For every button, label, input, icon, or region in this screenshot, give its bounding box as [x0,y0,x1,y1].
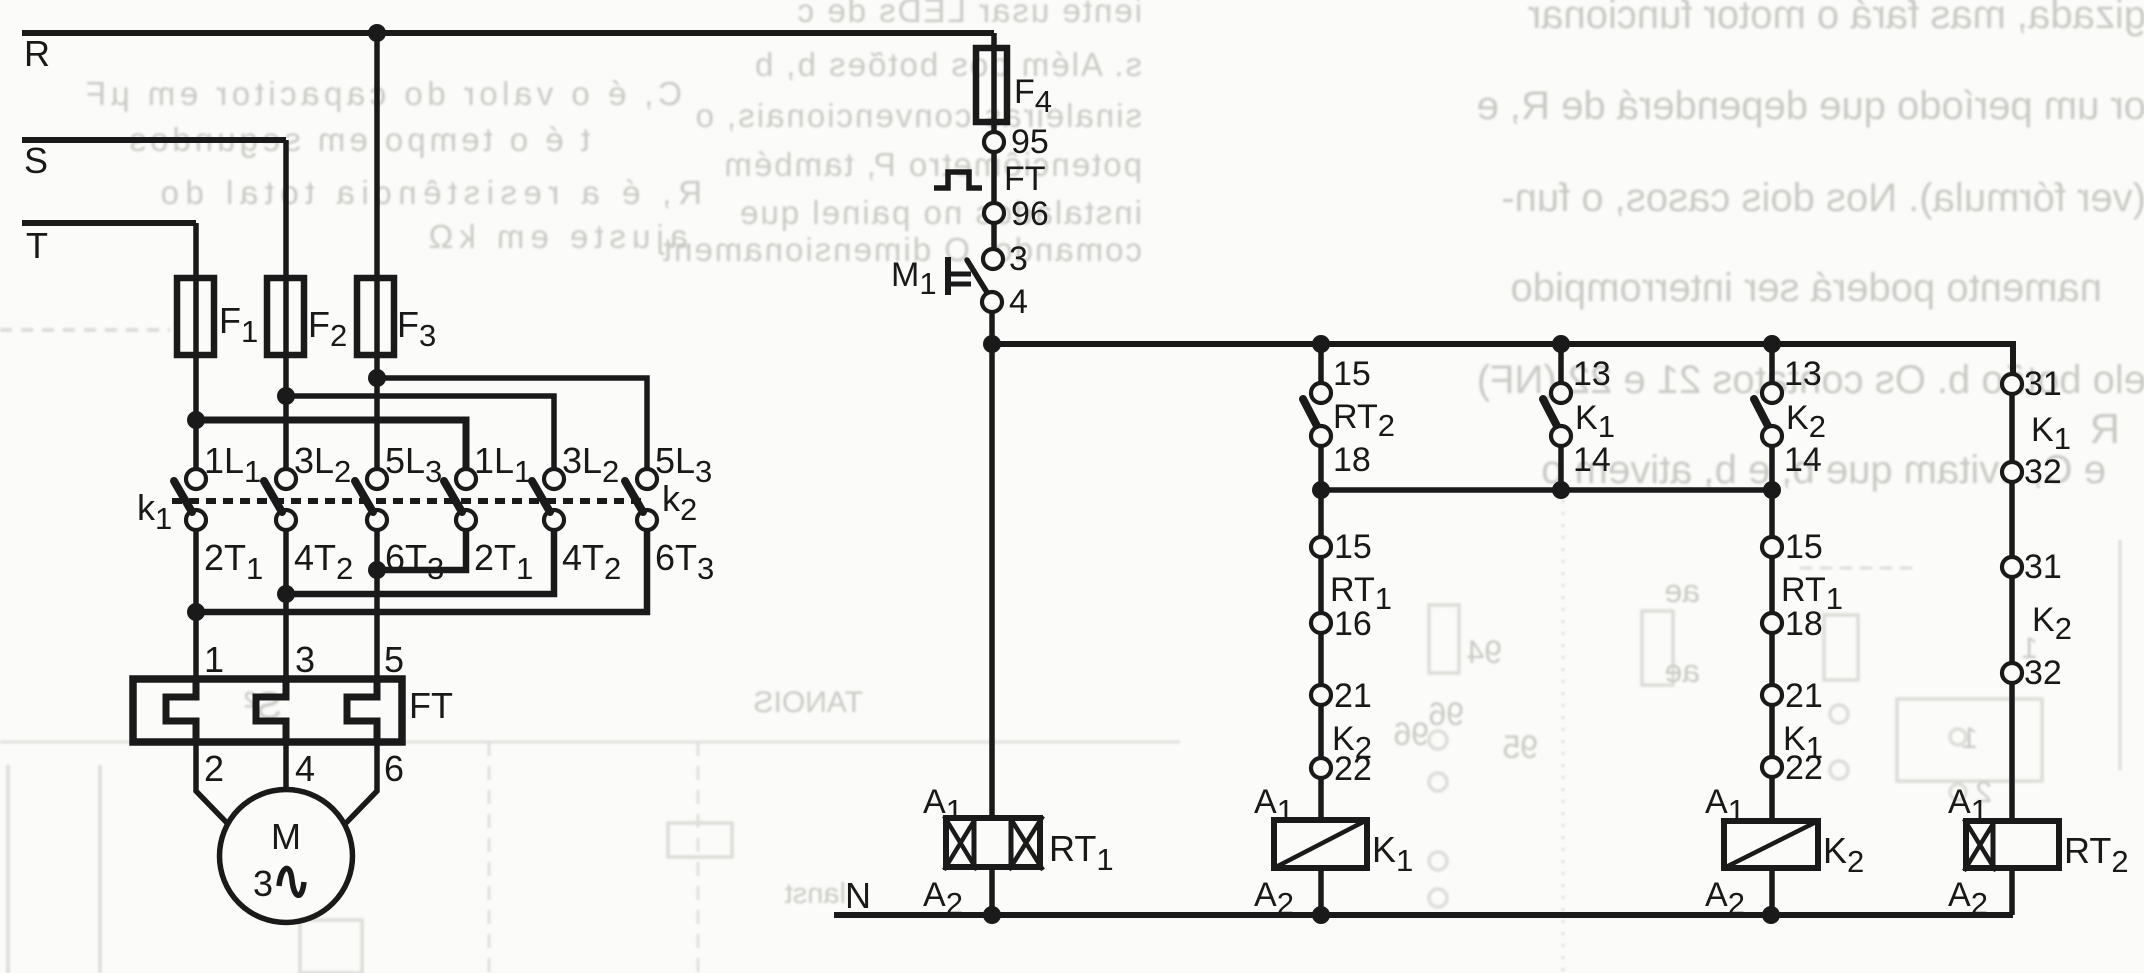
svg-text:K2: K2 [1786,399,1826,444]
thermal overload relay FT (power block) [133,679,453,742]
svg-text:1: 1 [204,639,224,680]
svg-text:R: R [24,33,50,74]
svg-text:RT2: RT2 [2064,830,2129,879]
svg-text:FT: FT [1004,160,1046,198]
svg-text:R, é a resistência total: R, é a resistência total do [154,174,702,211]
svg-text:96: 96 [1011,195,1049,233]
svg-text:2: 2 [204,748,224,789]
pin 2 label [204,748,224,789]
svg-text:K1: K1 [1372,829,1413,878]
svg-text:31: 31 [2024,548,2062,586]
svg-text:16: 16 [1334,605,1372,643]
svg-text:K2: K2 [1823,830,1864,879]
junction bus at RT1 branch [983,335,1001,353]
wire 95 to 96 [991,152,997,204]
wire 22 to K2 coil [1769,776,1775,821]
svg-text:ajuste em kΩ: ajuste em kΩ [423,218,688,255]
wire F1 down to contact k1 pole1 [193,355,199,469]
wire bus to K1 contact [1558,344,1564,384]
svg-text:32: 32 [2024,654,2062,692]
contactor k2 contact pole2 3L2/4T2 [532,440,621,586]
FT NC thermal contact symbol [934,160,1046,198]
wire 16 to 21 [1318,632,1324,686]
svg-text:1L1: 1L1 [474,440,531,489]
wire bus to K2 contact [1769,344,1775,384]
terminal 3 [983,240,1028,278]
wire RT1 coil to N [989,867,995,915]
svg-text:3: 3 [253,863,273,904]
contactor k1 contact pole3 5L3/6T3 [355,440,444,586]
junction bus at K1-contact branch [1552,335,1570,353]
svg-text:18: 18 [1785,605,1823,643]
contact K1 31/32 NC [2002,365,2071,491]
pin 3 label [295,639,315,680]
svg-text:6T3: 6T3 [655,537,714,586]
svg-text:ae: ae [1664,573,1700,609]
wire 4 down to control bus [989,312,995,344]
svg-text:32: 32 [2024,453,2062,491]
svg-text:31: 31 [2024,365,2062,403]
wire F3 branch to k2 pole3 (5L3) [377,378,647,469]
fuse F2 [267,278,347,355]
contactor k1 label [137,487,172,536]
timer contact RT1 15/18 (branch D) [1762,528,1843,643]
wire F1 branch to k2 pole1 (1L1) [196,420,466,469]
timer contact RT1 15/16 [1311,528,1392,643]
junction bus at K2 branch [1763,335,1781,353]
junction N at RT1 coil [983,906,1001,924]
wire k1 pole2 down to FT [283,530,289,679]
svg-text:22: 22 [1785,749,1823,787]
wire F2 branch to k2 pole2 (3L2) [286,396,554,469]
svg-text:N: N [845,875,871,916]
svg-text:instalados no painel que: instalados no painel que [738,194,1142,231]
wire K1 coil to N [1318,868,1324,915]
timer relay coil RT2 [1948,783,2129,921]
pin 1 label [204,639,224,680]
svg-text:95: 95 [1011,123,1049,161]
wire 32 to RT2 coil [2009,682,2015,821]
contactor k1 contact pole2 3L2/4T2 [264,440,353,586]
svg-text:15: 15 [1334,528,1372,566]
svg-text:22: 22 [1334,750,1372,788]
contact K2 21/22 NC [1311,677,1372,788]
svg-text:M: M [271,816,301,857]
pin 6 label [384,748,404,789]
link rail wire [1321,487,1772,493]
svg-text:21: 21 [1785,677,1823,715]
terminal 95 [984,123,1049,161]
svg-text:96: 96 [1393,716,1429,752]
terminal 4 [982,283,1028,321]
svg-text:k1: k1 [137,487,172,536]
svg-text:4T2: 4T2 [294,537,353,586]
wire S to fuse F2 [283,140,289,278]
wire 32 to 31 (branch E) [2009,481,2015,558]
svg-text:96: 96 [1428,696,1464,732]
svg-text:or um período que dependerá de: or um período que dependerá de R, e [1477,84,2144,128]
wire k2 2T1 cross-link to T3 column [377,530,466,570]
dashed mechanical link of contactor poles [172,498,643,504]
svg-text:F2: F2 [308,304,347,353]
wire k1 pole1 down to FT [193,530,199,679]
svg-text:TANOIS: TANOIS [754,686,863,719]
wire FT-6 to motor [346,742,377,823]
wire K2 coil to N [1769,868,1775,915]
svg-text:3: 3 [1009,240,1028,278]
fuse F1 [177,278,258,355]
contactor k2 contact pole1 1L1/2T1 [444,440,533,586]
wire F3 down to contact k1 pole3 [374,355,380,469]
contactor k2 label [662,478,697,527]
junction on R feeding F3 [368,24,386,42]
svg-text:S: S [24,140,48,181]
junction F1 branch to k2 [187,411,205,429]
junction cross-link T1 [187,603,205,621]
svg-text:14: 14 [1784,441,1822,479]
wire FT-4 to motor [283,742,289,790]
svg-text:15: 15 [1785,528,1823,566]
wire 18 to 21 (branch D) [1769,632,1775,686]
contact K1 13/14 NO [1543,355,1615,479]
svg-text:14: 14 [1573,441,1611,479]
contact K2 13/14 NO [1754,355,1826,479]
svg-text:94: 94 [1466,634,1502,670]
motor M 3-phase [220,790,353,923]
contact K2 31/32 NC [2002,548,2072,692]
svg-text:K1: K1 [1575,399,1615,444]
junction F2 branch to k2 [277,387,295,405]
wire rail down branch B [1318,490,1324,538]
junction rail right [1763,481,1781,499]
junction rail left [1312,481,1330,499]
wire K2-14 to rail [1769,445,1775,490]
svg-text:F1: F1 [219,300,258,349]
svg-text:95: 95 [1502,729,1538,765]
fuse F4 [976,48,1052,122]
wire bus to RT2 contact [1318,344,1324,384]
wire k2 6T3 cross-link to T1 column [196,530,647,612]
pin 4 label [295,748,315,789]
junction rail middle [1552,481,1570,499]
junction N at K2 coil [1762,906,1780,924]
contactor coil K2 [1705,783,1864,921]
node N (neutral bus) [834,875,2013,916]
svg-text:13: 13 [1573,355,1611,393]
wire k1 pole3 down to FT [374,530,380,679]
wire rail down branch D [1769,490,1775,538]
svg-text:k2: k2 [662,478,697,527]
pushbutton M1 [891,256,988,301]
wire T to fuse F1 [193,223,199,278]
svg-text:1: 1 [1961,722,1978,755]
svg-text:F3: F3 [397,304,436,353]
contactor k1 contact pole1 1L1/2T1 [174,440,263,586]
svg-text:6T3: 6T3 [385,537,444,586]
svg-text:3: 3 [295,639,315,680]
svg-text:lanst: lanst [785,878,846,910]
svg-text:T: T [26,225,48,266]
junction cross-link T2 [277,585,295,603]
node R (phase R supply line) [22,33,994,74]
svg-text:18: 18 [1333,441,1371,479]
terminal 96 [984,195,1049,233]
contactor k2 contact pole3 5L3/6T3 [625,440,714,586]
svg-text:gizada, mas fará o motor funci: gizada, mas fará o motor funcionar [1528,0,2144,37]
svg-text:4: 4 [1009,283,1028,321]
wire F2 down to contact k1 pole2 [283,355,289,469]
control bus wire [992,344,2013,374]
svg-text:RT1: RT1 [1049,828,1114,877]
fuse F3 [357,278,436,355]
svg-text:3L2: 3L2 [294,440,351,489]
node S (phase S supply line) [22,140,286,181]
svg-text:6: 6 [384,748,404,789]
svg-text:C, é o valor do capacitor em µ: C, é o valor do capacitor em µF [81,75,682,112]
wire R to fuse F3 [374,33,380,278]
svg-text:1L1: 1L1 [204,440,261,489]
wire RT1-coil branch [989,344,995,818]
contact K1 21/22 NC [1762,677,1823,787]
svg-text:13: 13 [1784,355,1822,393]
wire R line down to F4 [991,33,997,132]
timer relay coil RT1 [923,783,1114,921]
svg-text:15: 15 [1333,355,1371,393]
svg-text:RT2: RT2 [1333,398,1395,443]
svg-text:(ver fórmula). Nos dois casos,: (ver fórmula). Nos dois casos, o fun- [1501,176,2144,220]
svg-text:3L2: 3L2 [562,440,619,489]
junction N at K1 coil [1312,906,1330,924]
wire K1-14 to rail [1558,445,1564,490]
svg-text:A1: A1 [923,783,963,828]
svg-text:ae: ae [1664,653,1700,689]
svg-text:2T1: 2T1 [474,537,533,586]
timer contact RT2 15/18 [1303,355,1395,479]
svg-text:potenciômetro P, também: potenciômetro P, também [722,146,1142,183]
node T (phase T supply line) [22,223,196,266]
wire k2 4T2 cross-link to T2 column [286,530,554,594]
svg-text:21: 21 [1334,677,1372,715]
contactor coil K1 [1254,783,1413,921]
svg-text:4T2: 4T2 [562,537,621,586]
svg-text:5: 5 [384,639,404,680]
wire 96 to 3 [991,223,997,250]
svg-text:4: 4 [295,748,315,789]
svg-text:s. Além dos botões b, b: s. Além dos botões b, b [753,46,1142,83]
pin 5 label [384,639,404,680]
wire FT-2 to motor [196,742,227,823]
svg-text:namento poderá ser interrompid: namento poderá ser interrompido [1511,266,2102,310]
svg-text:iente usar LEDs de c: iente usar LEDs de c [796,0,1142,29]
wire RT2 coil to N [2009,868,2015,915]
svg-text:2T1: 2T1 [204,537,263,586]
junction F3 branch to k2 [368,369,386,387]
junction bus at K1-coil branch [1312,335,1330,353]
junction cross-link T3 [368,561,386,579]
svg-text:R: R [2090,405,2120,452]
svg-text:sinaleiras convencionais, o: sinaleiras convencionais, o [694,97,1142,134]
svg-text:FT: FT [409,685,453,726]
svg-text:5L3: 5L3 [385,440,442,489]
wire 22 to K1 coil [1318,777,1324,820]
wire RT2-18 to link rail [1318,445,1324,490]
